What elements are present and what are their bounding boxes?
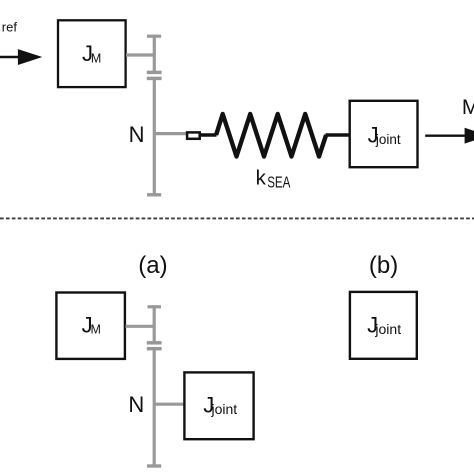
- spring k_SEA zigzag: [216, 114, 326, 157]
- dashed divider: [0, 217, 474, 219]
- svg-text:(b): (b): [369, 252, 398, 279]
- gear N shaft lower segment (bottom): [153, 349, 156, 466]
- svg-text:(a): (a): [138, 252, 167, 279]
- svg-text:joint: joint: [210, 401, 237, 417]
- joint inertia J_joint (top): [350, 101, 418, 167]
- gear mesh bar 2: [147, 77, 162, 81]
- svg-text:N: N: [128, 392, 144, 417]
- svg-text:M: M: [91, 51, 101, 65]
- motor inertia J_M (bottom): [56, 293, 125, 359]
- wire input arrow shaft: [0, 56, 20, 59]
- gear N shaft upper segment: [153, 35, 156, 73]
- gear mesh bar 2 (bottom): [147, 347, 162, 351]
- wire node N to J_joint (bottom, gray): [154, 403, 184, 406]
- wire J_M to gear shaft bottom (gray): [126, 325, 155, 328]
- wire node N to spring terminal (gray): [154, 132, 187, 135]
- svg-text:joint: joint: [375, 131, 401, 147]
- gear N shaft lower segment: [153, 78, 156, 194]
- gear mesh bar 1: [147, 71, 162, 75]
- gear N bottom cap (bottom): [147, 464, 161, 467]
- gear N top cap (bottom): [148, 305, 162, 308]
- wire J_M to gear shaft (gray): [126, 53, 154, 56]
- wire spring to J_joint: [326, 133, 350, 137]
- gear N shaft upper segment (bottom): [153, 305, 156, 343]
- gear N bottom cap: [147, 193, 161, 196]
- svg-text:ref: ref: [2, 19, 18, 34]
- motor inertia J_M (top): [58, 20, 126, 87]
- output arrowhead: [465, 128, 474, 144]
- svg-text:M: M: [462, 96, 474, 119]
- gear N top cap: [147, 35, 161, 38]
- svg-text:joint: joint: [374, 321, 401, 337]
- gear mesh bar 1 (bottom): [147, 341, 162, 345]
- svg-text:k: k: [256, 166, 267, 189]
- input arrowhead: [18, 49, 42, 65]
- svg-text:M: M: [91, 323, 101, 337]
- joint inertia J_joint (a): [184, 372, 253, 439]
- spring left terminal box: [187, 132, 200, 138]
- svg-text:N: N: [129, 122, 145, 147]
- svg-text:SEA: SEA: [267, 174, 291, 191]
- joint inertia J_joint (b): [350, 292, 417, 359]
- wire output arrow shaft: [425, 134, 466, 136]
- wire terminal to spring: [201, 133, 217, 137]
